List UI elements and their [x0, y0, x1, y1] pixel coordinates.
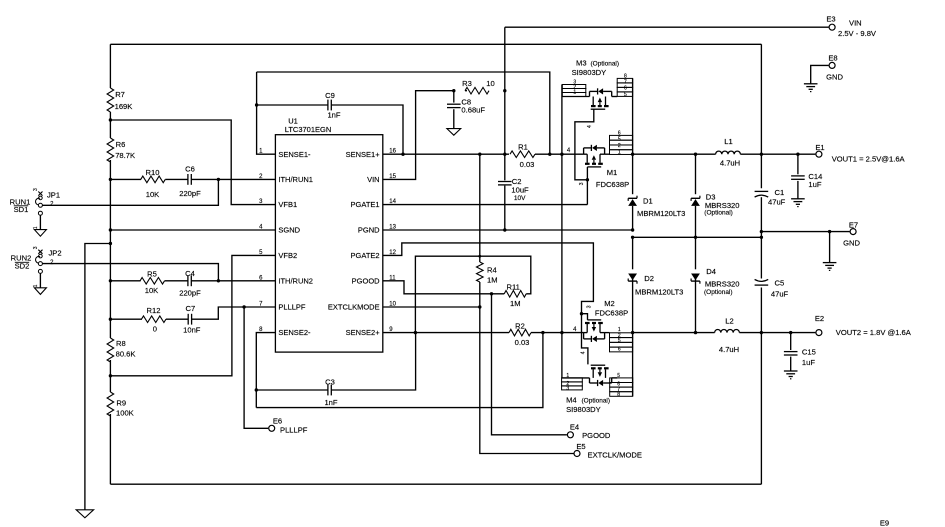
- svg-text:2: 2: [618, 143, 621, 149]
- wire - C3 left: [256, 389, 328, 391]
- pin numbers M4 drain: [617, 373, 620, 398]
- svg-text:1M: 1M: [510, 299, 521, 308]
- wire - JP2 pin1 to ground: [39, 273, 41, 287]
- pin boxes M2 drain (1,2,5,6): [610, 333, 633, 352]
- svg-text:2.5V - 9.8V: 2.5V - 9.8V: [838, 29, 877, 38]
- svg-text:4: 4: [587, 125, 593, 128]
- junction - left edge ITH2 row: [109, 279, 112, 282]
- ground - E7: [823, 262, 837, 264]
- label SD2 (overline): [15, 262, 30, 271]
- svg-text:R6: R6: [116, 140, 126, 149]
- svg-text:R2: R2: [515, 321, 525, 330]
- svg-text:ITH/RUN1: ITH/RUN1: [278, 175, 313, 184]
- svg-text:5: 5: [624, 92, 627, 98]
- svg-text:R12: R12: [147, 306, 161, 315]
- svg-text:R4: R4: [487, 266, 497, 275]
- jumper JP2: [33, 246, 54, 273]
- svg-text:3: 3: [566, 386, 569, 392]
- capacitor C7: [187, 314, 189, 325]
- svg-text:MBRM120LT3: MBRM120LT3: [637, 209, 685, 218]
- svg-text:D4: D4: [706, 267, 716, 276]
- svg-text:SD1: SD1: [14, 205, 29, 214]
- svg-text:1: 1: [618, 149, 621, 155]
- terminal E6: [269, 425, 275, 431]
- wire - top frame edge (VOUT1 feedback line): [110, 43, 761, 45]
- wire - SGND to R5: [110, 280, 140, 282]
- svg-text:169K: 169K: [115, 102, 133, 111]
- svg-text:L1: L1: [724, 137, 732, 146]
- svg-text:VOUT1 = 2.5V@1.6A: VOUT1 = 2.5V@1.6A: [832, 154, 906, 163]
- wire - JP1 pin1 to ground: [39, 215, 41, 229]
- svg-text:SENSE1-: SENSE1-: [278, 150, 311, 159]
- wire - SW2 vertical (PGND to M2/M4 drains): [632, 237, 634, 396]
- terminal E5: [574, 451, 580, 457]
- svg-text:M1: M1: [607, 168, 618, 177]
- terminal E4: [567, 432, 573, 438]
- wire - C15 top lead: [790, 333, 792, 350]
- wire - SENSE2+ pin 9 row to R2: [383, 332, 509, 334]
- junction - RUN1 joins ITH/RUN1: [217, 178, 220, 181]
- svg-text:VIN: VIN: [849, 19, 862, 28]
- wire - M4 drain boxes to SW2 vertical: [612, 377, 618, 379]
- wire - top sense wire y=72 to R1 right: [257, 72, 550, 154]
- svg-text:R8: R8: [116, 339, 126, 348]
- wire - PGATE1 gate routing: [575, 109, 594, 204]
- pin boxes M3 source (3,2,1): [562, 85, 586, 97]
- junction - SENSE2- at R2 right: [541, 331, 544, 334]
- svg-text:M3: M3: [576, 59, 587, 68]
- junction - C9 tap on SENSE1- vertical: [255, 103, 258, 106]
- svg-text:(Optional): (Optional): [582, 397, 611, 404]
- svg-text:D1: D1: [643, 196, 653, 205]
- label SD1 (overline): [14, 205, 29, 214]
- inductor L1: [716, 151, 741, 154]
- terminal E2: [816, 330, 822, 336]
- capacitor C4: [187, 275, 189, 286]
- svg-text:M2: M2: [604, 299, 615, 308]
- label M4 (Optional): [566, 395, 610, 404]
- wire - JP2 pin2 to RUN2 net: [42, 264, 218, 281]
- svg-text:3: 3: [33, 188, 39, 191]
- svg-text:VFB1: VFB1: [278, 200, 297, 209]
- wire - R12 to C7: [166, 318, 188, 320]
- capacitor C5 (polarized): [755, 284, 769, 286]
- junction - EXTCLKMODE tee: [478, 305, 481, 308]
- wire - R4 vertical from VOUT1 sense: [479, 154, 481, 262]
- junction - D4 at VOUT2 rail: [694, 331, 697, 334]
- svg-text:220pF: 220pF: [179, 189, 201, 198]
- svg-text:6: 6: [624, 86, 627, 92]
- svg-text:3: 3: [579, 182, 585, 185]
- terminal E8: [829, 62, 835, 68]
- wire - EXTCLKMODE pin 10 row: [383, 306, 480, 308]
- wire - C8 top lead: [453, 91, 455, 103]
- wire - E3 VIN feed: [505, 26, 829, 28]
- resistor R12: [141, 316, 166, 323]
- ground - C15: [784, 370, 798, 372]
- svg-text:VOUT2 = 1.8V @1.6A: VOUT2 = 1.8V @1.6A: [836, 328, 912, 337]
- svg-text:5: 5: [618, 136, 621, 142]
- wire - R2 right to M2 source: [531, 332, 584, 334]
- wire - E8 to ground: [811, 65, 829, 83]
- transistor M2 (FDC638P): [584, 320, 605, 342]
- wire - C14 bottom lead: [797, 181, 799, 199]
- resistor R9: [107, 392, 114, 416]
- wire - L1 to E1: [740, 153, 815, 155]
- svg-text:MBRM120LT3: MBRM120LT3: [635, 287, 683, 296]
- wire - C4 to ITH/RUN2 pin 6: [191, 280, 275, 282]
- resistor R10: [141, 176, 166, 183]
- svg-text:E8: E8: [828, 53, 837, 62]
- diode D1 (MBRM120LT3): [628, 199, 637, 206]
- svg-text:5: 5: [617, 373, 620, 379]
- junction - R8/R9 divider tap: [109, 374, 112, 377]
- svg-text:R3: R3: [462, 79, 472, 88]
- svg-text:R1: R1: [518, 143, 528, 152]
- svg-text:PGND: PGND: [358, 226, 380, 235]
- svg-text:3: 3: [33, 246, 39, 249]
- junction - SW2 at VOUT2 rail: [631, 331, 634, 334]
- junction - R4 top tap: [478, 153, 481, 156]
- svg-text:1nF: 1nF: [324, 398, 337, 407]
- svg-text:10K: 10K: [145, 286, 159, 295]
- svg-text:10uF: 10uF: [511, 185, 529, 194]
- resistor R5: [140, 278, 165, 285]
- wire - M1 drain to switch node: [605, 153, 610, 155]
- svg-text:47uF: 47uF: [768, 198, 786, 207]
- jumper JP1: [33, 188, 54, 215]
- capacitor C1 (polarized): [755, 190, 769, 192]
- capacitor C8: [447, 103, 461, 105]
- wire - M3 source line: [562, 96, 589, 98]
- svg-text:1uF: 1uF: [802, 358, 815, 367]
- svg-text:FDC638P: FDC638P: [595, 308, 628, 317]
- resistor R2: [509, 329, 531, 336]
- wire - R3 body leads: [465, 90, 467, 92]
- junction - R7/R6 divider tap: [109, 118, 112, 121]
- svg-text:SGND: SGND: [278, 226, 300, 235]
- wire - SENSE2- pin 8 stub: [256, 333, 275, 408]
- svg-text:R5: R5: [147, 269, 157, 278]
- wire - bottom frame edge (VOUT2 feedback line): [110, 483, 761, 485]
- svg-text:E2: E2: [815, 314, 824, 323]
- resistor R4: [477, 262, 484, 282]
- svg-text:(Optional): (Optional): [704, 210, 733, 217]
- junction - gate tee ch1: [586, 178, 589, 181]
- svg-text:SD2: SD2: [15, 262, 30, 271]
- wire - SENSE2- to R2 right node: [256, 333, 543, 408]
- svg-text:1nF: 1nF: [327, 110, 340, 119]
- ground - E8: [804, 83, 818, 85]
- svg-text:VIN: VIN: [367, 175, 380, 184]
- svg-text:C1: C1: [775, 188, 785, 197]
- ground - C14: [791, 198, 805, 200]
- svg-text:(Optional): (Optional): [704, 289, 733, 296]
- wire - M4 source line: [562, 377, 590, 379]
- svg-text:C3: C3: [325, 377, 335, 386]
- capacitor C6: [187, 174, 189, 185]
- svg-text:10V: 10V: [514, 195, 526, 202]
- junction - left edge ITH1 row: [109, 178, 112, 181]
- resistor R11: [504, 291, 526, 298]
- pin boxes M1 drain (1,2,5,6): [610, 135, 633, 154]
- svg-text:5: 5: [618, 338, 621, 344]
- junction - R4 crosses pull-up rail: [478, 255, 481, 258]
- svg-text:FDC638P: FDC638P: [596, 180, 629, 189]
- resistor R3: [465, 87, 489, 94]
- wire - SGND to R10: [110, 178, 141, 180]
- svg-text:PLLLPF: PLLLPF: [278, 303, 306, 312]
- svg-text:4: 4: [580, 351, 586, 354]
- pin numbers M2: [618, 327, 621, 353]
- wire - C15 bottom lead: [790, 357, 792, 371]
- wire - D4 vertical: [695, 237, 697, 332]
- resistor R1: [510, 151, 535, 158]
- svg-text:C15: C15: [802, 348, 816, 357]
- junction - D3 at VOUT1 rail: [694, 153, 697, 156]
- wire - D1 anode down to PGND: [632, 206, 634, 230]
- wire - SW1 vertical (M3/M1 drains to D1): [632, 78, 634, 194]
- op-amp U1 box (LTC3701EGN): [275, 135, 382, 352]
- junction - C3 tap on SENSE2-: [255, 388, 258, 391]
- svg-text:0: 0: [153, 324, 157, 333]
- pin boxes M4 source (1,2,3): [562, 378, 583, 390]
- pin numbers M1: [618, 130, 621, 155]
- wire - PGND pin 13 row: [383, 229, 633, 231]
- svg-text:D2: D2: [644, 274, 654, 283]
- junction - C15 tap: [789, 331, 792, 334]
- wire - M1 gate lead: [586, 167, 588, 180]
- svg-text:R10: R10: [146, 168, 160, 177]
- svg-text:VFB2: VFB2: [278, 251, 297, 260]
- diode D2 (MBRM120LT3): [628, 274, 637, 281]
- terminal E3: [829, 24, 835, 30]
- svg-text:C4: C4: [185, 269, 195, 278]
- wire - D3 vertical from VOUT1 rail: [695, 154, 697, 194]
- svg-text:E6: E6: [273, 416, 282, 425]
- junction - R1 right node: [548, 153, 551, 156]
- svg-text:1: 1: [573, 90, 576, 96]
- wire - EXTCLKMODE down to E5: [480, 307, 574, 454]
- terminal E1: [816, 151, 822, 157]
- svg-text:220pF: 220pF: [179, 289, 201, 298]
- wire - R3 left to VIN pin vertical: [383, 91, 454, 180]
- capacitor C2: [498, 181, 512, 183]
- wire - C14 top lead: [797, 154, 799, 174]
- junction - R1 left node: [503, 153, 506, 156]
- wire - M4 sources up to ch2 source node: [561, 333, 563, 378]
- wire - R5 to C4: [165, 280, 188, 282]
- resistor R7: [107, 88, 114, 112]
- svg-text:SI9803DY: SI9803DY: [566, 405, 601, 414]
- junction - pull-up rail at SENSE2+ row: [414, 331, 417, 334]
- svg-text:GND: GND: [843, 239, 860, 248]
- diode D4 (MBRS320 optional): [691, 274, 700, 281]
- svg-text:1: 1: [33, 284, 39, 287]
- wire - C9 left: [257, 104, 328, 106]
- svg-text:8: 8: [617, 392, 620, 398]
- svg-text:U1: U1: [288, 116, 298, 125]
- inductor L2: [715, 330, 740, 333]
- wire - right frame edge vertical (VOUT1/C1/PGND/C5/VOUT2): [760, 44, 762, 484]
- svg-text:C7: C7: [186, 304, 196, 313]
- transistor M1 (FDC638P): [584, 145, 605, 167]
- svg-text:SENSE1+: SENSE1+: [346, 150, 381, 159]
- wire - C6 to ITH/RUN1 pin 2: [191, 178, 275, 180]
- svg-text:78.7K: 78.7K: [115, 151, 135, 160]
- svg-text:M4: M4: [566, 395, 577, 404]
- svg-text:E1: E1: [815, 143, 824, 152]
- wire - L2 to E2: [739, 332, 815, 334]
- svg-text:4.7uH: 4.7uH: [720, 159, 740, 168]
- junction - C8 tap: [452, 89, 455, 92]
- pin boxes M3 drain (8,7,6,5): [617, 78, 632, 96]
- junction - left edge PLL row: [109, 318, 112, 321]
- svg-text:10nF: 10nF: [183, 325, 201, 334]
- wire - SENSE1- pin 1 stub and vertical: [257, 72, 276, 154]
- wire - PGOOD to E4: [492, 294, 567, 435]
- terminal E7: [850, 229, 856, 235]
- junction - PGND at frame edge: [760, 236, 763, 239]
- svg-text:SENSE2+: SENSE2+: [346, 328, 381, 337]
- resistor R8: [107, 338, 114, 362]
- svg-text:80.6K: 80.6K: [116, 350, 136, 359]
- wire - C8 bottom lead: [453, 109, 455, 128]
- capacitor C3: [327, 385, 329, 396]
- wire - C9 right to SENSE1+ row: [331, 105, 403, 154]
- svg-text:E5: E5: [576, 442, 585, 451]
- junction - SGND at left edge: [109, 228, 112, 231]
- svg-text:100K: 100K: [116, 409, 134, 418]
- svg-text:E7: E7: [849, 221, 858, 230]
- wire - R1 right to M1 source: [535, 153, 584, 155]
- junction - E4 tap on PGOOD row: [490, 292, 493, 295]
- svg-text:C9: C9: [325, 91, 335, 100]
- svg-text:(Optional): (Optional): [591, 61, 620, 68]
- wire - M2 drain to switch node: [605, 332, 610, 334]
- junction - PGND jog at D3/D4 vertical: [694, 236, 697, 239]
- pin numbers M4 source: [566, 373, 569, 392]
- svg-text:JP2: JP2: [48, 249, 61, 258]
- wire - PGATE2 pin 12 routing: [383, 243, 594, 365]
- wire - M2 gate lead: [582, 314, 588, 320]
- wire - SW2 to L2: [633, 332, 715, 334]
- wire - SENSE1+ row pin16 to R1: [383, 153, 509, 155]
- wire - left frame edge (feedback divider string), upper part: [109, 44, 111, 484]
- junction - VOUT1 at frame edge: [760, 153, 763, 156]
- junction - VOUT2 at frame edge: [760, 331, 763, 334]
- wire - SW node to L1: [633, 153, 716, 155]
- junction - R3 right node: [503, 89, 506, 92]
- diode D3 (MBRS320 optional): [691, 199, 700, 206]
- wire - C3 right up to SENSE2+ row: [331, 333, 415, 390]
- resistor R6: [107, 138, 114, 162]
- label M3 (Optional): [576, 59, 619, 68]
- junction - E7 stub at frame edge: [760, 230, 763, 233]
- svg-text:PGOOD: PGOOD: [582, 431, 611, 440]
- junction - PGND jog at D1/D2 vertical: [631, 236, 634, 239]
- junction - PGND at D1 vertical: [631, 228, 634, 231]
- wire - VFB1 tap from R7/R6 junction to pin 3: [110, 120, 275, 205]
- junction - C14 tap: [796, 153, 799, 156]
- svg-text:1M: 1M: [487, 276, 498, 285]
- ground - JP2 arrow: [34, 288, 46, 295]
- junction - E7 ground symbol tap: [828, 230, 831, 233]
- pin numbers M3 source: [573, 80, 576, 96]
- wire - E7 ground drop: [829, 232, 831, 263]
- svg-text:EXTCLKMODE: EXTCLKMODE: [328, 303, 380, 312]
- wire - D3 anode down to PGND: [695, 206, 697, 237]
- ground - C8 triangle: [447, 129, 461, 136]
- svg-text:PGOOD: PGOOD: [352, 276, 381, 285]
- ground - chassis arrow bottom left: [76, 510, 93, 518]
- svg-text:PGATE1: PGATE1: [351, 200, 380, 209]
- svg-text:R9: R9: [116, 399, 126, 408]
- svg-text:R7: R7: [115, 90, 125, 99]
- junction - E6 tap on PLLLPF: [242, 305, 245, 308]
- svg-text:SI9803DY: SI9803DY: [572, 68, 607, 77]
- wire - R11 right up to pull-up rail: [415, 256, 530, 332]
- ground - JP1 arrow: [34, 230, 46, 237]
- wire - R4 down to EXTCLKMODE: [479, 282, 481, 307]
- capacitor C9: [327, 100, 329, 111]
- svg-text:GND: GND: [826, 73, 843, 82]
- svg-text:47uF: 47uF: [771, 290, 789, 299]
- svg-text:E3: E3: [826, 15, 835, 24]
- capacitor C15: [784, 351, 798, 353]
- junction - SW1 at VOUT1 rail: [631, 153, 634, 156]
- pin boxes M4 drain (5,6,7,8): [610, 378, 633, 396]
- wire - PGND jog rail: [633, 236, 762, 238]
- wire - PLLLPF to E6: [244, 307, 268, 428]
- svg-text:0.03: 0.03: [515, 338, 530, 347]
- junction - M3 source tap: [560, 153, 563, 156]
- junction - C2 at PGND row: [503, 228, 506, 231]
- wire - JP1 pin2 to RUN1 net: [42, 179, 218, 205]
- svg-text:1: 1: [33, 226, 39, 229]
- svg-text:7: 7: [624, 79, 627, 85]
- junction - chassis branch: [109, 242, 112, 245]
- svg-text:EXTCLK/MODE: EXTCLK/MODE: [588, 451, 642, 460]
- wire - SGND pin 4 to left edge: [110, 229, 275, 231]
- svg-text:MBRS320: MBRS320: [705, 280, 740, 289]
- wire - PGOOD pin 11 to R11 row: [383, 281, 504, 294]
- wire - PGATE1 pin 14 row: [383, 204, 588, 206]
- svg-text:R11: R11: [507, 283, 520, 292]
- svg-text:PGATE2: PGATE2: [351, 251, 380, 260]
- wire - E7 GND stub: [761, 231, 849, 233]
- svg-text:C5: C5: [775, 278, 785, 287]
- wire - VIN vertical x=504.8 (E3 to R3/R1/C2): [504, 27, 506, 180]
- svg-text:ITH/RUN2: ITH/RUN2: [278, 276, 313, 285]
- pin numbers M3 drain: [624, 74, 627, 98]
- svg-text:10: 10: [486, 79, 494, 88]
- svg-text:C6: C6: [185, 164, 195, 173]
- junction - gate tee ch2: [580, 312, 583, 315]
- junction - C9 at SENSE1+ row: [401, 153, 404, 156]
- svg-text:L2: L2: [725, 317, 733, 326]
- junction - M4 source tap: [560, 331, 563, 334]
- svg-text:6: 6: [618, 346, 621, 352]
- wire - C7 up to PLLLPF pin 7: [192, 307, 276, 319]
- transistor M4 (SI9803DY optional): [590, 365, 612, 386]
- svg-text:1uF: 1uF: [808, 180, 821, 189]
- transistor M3 (SI9803DY optional): [590, 88, 612, 109]
- junction - RUN2 joins ITH/RUN2: [217, 279, 220, 282]
- wire - M3 source boxes down to VIN rail and ch2 source node: [561, 85, 563, 333]
- wire - VFB2 tap below R8 to pin 5: [110, 255, 275, 375]
- svg-text:E9: E9: [880, 519, 889, 527]
